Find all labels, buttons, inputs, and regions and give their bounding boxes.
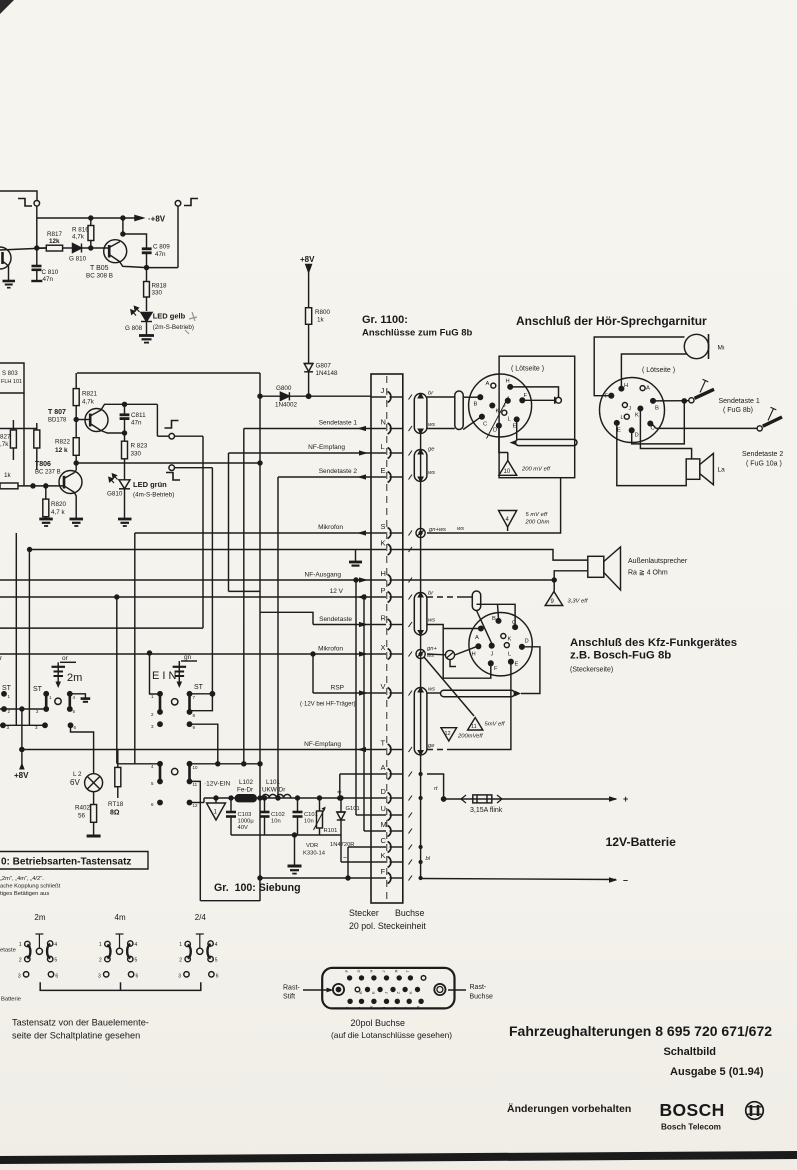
svg-text:1: 1 — [99, 942, 102, 948]
svg-text:( FuG 10a ): ( FuG 10a ) — [746, 461, 782, 468]
connector1 pin J center — [506, 398, 511, 403]
svg-text:H: H — [624, 383, 628, 389]
wire row X — [0, 653, 371, 655]
resistor R823 — [124, 433, 126, 441]
svg-text:6: 6 — [136, 973, 139, 979]
svg-text:D: D — [493, 428, 497, 434]
diode G807 — [304, 364, 313, 372]
scan corner mark top-left — [0, 0, 14, 14]
ground stub row K — [355, 550, 357, 563]
svg-text:C: C — [483, 422, 487, 428]
wire S row to box1 — [427, 478, 561, 533]
battery minus wire — [421, 879, 616, 880]
wire T805 collector — [123, 218, 147, 248]
svg-text:(4m-S-Betrieb): (4m-S-Betrieb) — [133, 492, 174, 499]
svg-text:Sendetaste 1: Sendetaste 1 — [319, 420, 358, 427]
wire row S — [135, 532, 371, 534]
wire pin S through strip — [371, 532, 386, 534]
svg-text:F: F — [524, 393, 528, 399]
connector2 pin F — [609, 393, 614, 398]
terminal circle H1 — [556, 397, 562, 403]
wire C2 to Sendetaste2 — [653, 425, 657, 429]
arrow right — [357, 594, 366, 599]
shield tip — [417, 750, 424, 756]
tick — [409, 813, 413, 818]
wire pin R through strip — [371, 624, 386, 626]
svg-text:F: F — [381, 867, 386, 876]
svg-text:ws: ws — [428, 470, 435, 476]
tick — [409, 578, 413, 583]
svg-text:10n: 10n — [304, 819, 314, 825]
svg-text:2: 2 — [99, 958, 102, 964]
box around connector 1 — [499, 356, 575, 478]
svg-text:3,15A flink: 3,15A flink — [470, 807, 503, 814]
svg-text:E: E — [381, 466, 386, 475]
pin S arc — [388, 528, 391, 539]
clamp drain stub — [450, 660, 456, 667]
vertical x116.8 row P down — [116, 597, 118, 764]
resistor R820 — [45, 486, 47, 499]
svg-text:J: J — [629, 406, 632, 412]
wire pin M through strip — [371, 830, 386, 832]
tick — [409, 595, 413, 600]
ground under LED gruen — [118, 518, 132, 521]
svg-text:12 k: 12 k — [55, 447, 68, 454]
wire pin N through strip — [371, 428, 386, 430]
svg-text:2: 2 — [19, 958, 22, 964]
wire F1 to terminal — [525, 399, 555, 401]
switch EIN contacts lower — [158, 762, 162, 766]
svg-text:(2m-S-Betrieb): (2m-S-Betrieb) — [153, 324, 194, 331]
connector1 pin E — [514, 417, 519, 422]
test triangle 4 — [499, 511, 517, 528]
switch lever Sendetaste1 — [695, 389, 715, 398]
label Rast-Buchse — [448, 989, 466, 991]
svg-text:ws: ws — [428, 422, 435, 428]
svg-text:S: S — [381, 522, 386, 531]
svg-text:4m: 4m — [115, 913, 126, 922]
svg-text:( Lötseite ): ( Lötseite ) — [511, 366, 544, 373]
lamp L2 — [85, 774, 103, 792]
svg-text:B: B — [655, 406, 659, 412]
svg-text:K: K — [496, 409, 500, 415]
tick — [409, 395, 413, 400]
wire pin T through strip — [371, 749, 386, 751]
svg-text:Mikrofon: Mikrofon — [318, 524, 343, 531]
connector strip dashed centerline — [386, 376, 388, 900]
connector1 pin H — [508, 385, 513, 390]
wire pin F through strip — [371, 877, 386, 879]
svg-text:C: C — [381, 836, 387, 845]
wire row P — [0, 596, 371, 598]
connector3 pin L — [504, 643, 509, 648]
wire row V — [313, 692, 371, 694]
svg-text:827: 827 — [0, 434, 11, 441]
svg-text:T B05: T B05 — [90, 265, 109, 272]
wire pin C through strip — [371, 846, 386, 848]
vertical drop row N — [243, 429, 245, 764]
svg-text:Rast-: Rast- — [283, 985, 300, 992]
svg-text:12: 12 — [193, 803, 199, 808]
svg-text:L: L — [381, 442, 385, 451]
connector circle 2 — [600, 378, 665, 443]
svg-text:Sendetaste: Sendetaste — [319, 616, 352, 623]
connector1 pin B — [478, 395, 483, 400]
svg-text:M: M — [416, 1006, 421, 1009]
svg-text:ws: ws — [457, 526, 464, 532]
svg-text:L: L — [621, 415, 624, 421]
resistor R402 — [93, 792, 95, 805]
T807 circuit top rail — [77, 372, 260, 374]
svg-text:ache Kopplung schließt: ache Kopplung schließt — [0, 884, 61, 890]
arrow right — [359, 622, 368, 627]
svg-text:LED grün: LED grün — [133, 480, 167, 489]
arrow left — [357, 530, 366, 535]
Rast-Buchse hole — [434, 984, 445, 995]
svg-text:L102: L102 — [239, 779, 254, 786]
svg-text:5: 5 — [135, 958, 138, 964]
svg-text:D: D — [635, 433, 639, 439]
wire EIN pin11 drop — [190, 781, 201, 900]
svg-text:Stecker: Stecker — [349, 908, 379, 918]
ground left edge — [3, 280, 16, 283]
svg-text:Rа ≧ 4 Ohm: Rа ≧ 4 Ohm — [628, 570, 668, 577]
wire row M — [364, 830, 371, 832]
pin T arc — [388, 744, 391, 755]
svg-text:4,7 k: 4,7 k — [51, 509, 66, 516]
svg-text:12 V: 12 V — [330, 588, 344, 595]
svg-text:D: D — [356, 970, 361, 973]
svg-text:ST: ST — [194, 684, 204, 691]
svg-text:Änderungen vorbehalten: Änderungen vorbehalten — [507, 1102, 631, 1115]
fuse 3,15A — [473, 795, 492, 803]
connector2 pin L — [624, 414, 629, 419]
cable shield oval — [414, 394, 427, 434]
test triangle 11 — [468, 718, 483, 731]
wire row W — [341, 861, 371, 863]
wire row U — [356, 814, 371, 816]
Aussenlautsprecher speaker — [588, 556, 604, 577]
svg-text:5mV eff: 5mV eff — [485, 722, 506, 728]
wire B2 to Sendetaste1 — [655, 400, 689, 402]
svg-text:E I N: E I N — [152, 670, 177, 682]
varistor R101 VDR — [319, 798, 321, 811]
svg-text:R818: R818 — [152, 283, 168, 290]
svg-text:K: K — [408, 991, 413, 994]
wire x21.9 to +8V — [21, 709, 23, 765]
wire K2 to speaker La — [640, 411, 691, 459]
ground siebung — [294, 835, 296, 866]
pin R arc — [388, 619, 391, 630]
cable shield oval — [414, 593, 427, 636]
svg-text:R820: R820 — [51, 501, 67, 508]
arrow left — [357, 474, 366, 479]
svg-text:2: 2 — [179, 958, 182, 964]
transistor T805 — [104, 240, 127, 263]
wire H2 to mic bottom — [621, 354, 687, 386]
connector1 pin F — [520, 398, 525, 403]
svg-text:4,7k: 4,7k — [72, 234, 85, 241]
svg-text:40V: 40V — [238, 825, 248, 831]
svg-text:4: 4 — [215, 942, 218, 948]
svg-text:A: A — [486, 381, 490, 387]
tick — [409, 426, 413, 431]
arrow right — [357, 747, 366, 752]
connector3 pin E — [509, 659, 514, 664]
connector3 pin K — [501, 634, 506, 639]
connector1 pin K — [490, 403, 495, 408]
wire base row — [0, 248, 46, 250]
svg-text:47n: 47n — [43, 276, 54, 283]
test triangle 10 — [507, 453, 509, 461]
connector1 pin L — [502, 410, 507, 415]
wire terminal2 down to emitter row — [177, 206, 179, 268]
terminal circle 1 — [34, 201, 40, 207]
cable shield oval near connector1 — [455, 391, 463, 430]
svg-text:2/4: 2/4 — [195, 913, 207, 922]
connector3 pin F — [489, 661, 494, 666]
svg-text:RT18: RT18 — [108, 801, 124, 808]
wire pin X through strip — [371, 653, 386, 655]
svg-text:2m: 2m — [67, 672, 82, 684]
jog wire to row P — [229, 590, 261, 592]
ground R402 — [87, 835, 101, 838]
verticals right column — [355, 580, 357, 815]
svg-text:K: K — [635, 413, 639, 419]
microphone M1 — [684, 334, 708, 358]
svg-text:gn+ws: gn+ws — [429, 527, 446, 533]
capacitor C101 — [297, 798, 299, 812]
svg-text:Schaltbild: Schaltbild — [663, 1046, 716, 1058]
svg-text:N: N — [381, 418, 386, 427]
pin X arc — [388, 649, 391, 660]
svg-text:3: 3 — [178, 973, 181, 979]
svg-text:FLH 101: FLH 101 — [1, 379, 22, 385]
20pol pins middle row — [365, 987, 370, 992]
svg-text:Anschluß der Hör-Sprechgarnitu: Anschluß der Hör-Sprechgarnitur — [516, 314, 707, 328]
wire bottom jog — [200, 900, 260, 902]
wire E1 into shield — [516, 422, 518, 440]
svg-text:S 803: S 803 — [2, 371, 18, 377]
svg-text:z.B. Bosch-FuG 8b: z.B. Bosch-FuG 8b — [570, 650, 671, 662]
connector2 pin K — [638, 406, 643, 411]
wire T row to E3 — [427, 749, 449, 751]
capacitor C103 — [230, 798, 232, 812]
wire ws to C1 — [427, 428, 455, 430]
resistor R800 — [306, 308, 312, 325]
svg-text:Rast-: Rast- — [470, 984, 487, 991]
svg-text:R101: R101 — [324, 828, 338, 834]
resistor R817 — [46, 245, 62, 251]
svg-text:G101: G101 — [346, 806, 360, 812]
wire pin U through strip — [371, 814, 386, 816]
wire X row to H3 — [427, 653, 445, 656]
terminal Sendetaste2 — [757, 426, 762, 431]
vertical drop row E — [277, 477, 279, 798]
rail y628 — [0, 627, 203, 629]
connector3 pin J — [489, 643, 494, 648]
svg-text:0: Betriebsarten-Tastensatz: 0: Betriebsarten-Tastensatz — [1, 857, 131, 868]
svg-text:Y: Y — [404, 1007, 409, 1010]
svg-text:8Ω: 8Ω — [110, 810, 120, 817]
connector circle 1 — [469, 374, 532, 437]
vertical x212 — [211, 468, 213, 694]
svg-text:E: E — [371, 991, 376, 994]
svg-text:K: K — [381, 539, 386, 548]
connector1 pin A — [491, 383, 496, 388]
svg-text:6: 6 — [55, 973, 58, 979]
svg-text:5: 5 — [215, 958, 218, 964]
svg-text:Anschluß des Kfz-Funkgerätes: Anschluß des Kfz-Funkgerätes — [570, 637, 737, 649]
pin H arc — [388, 575, 391, 586]
connector circle 3 — [469, 613, 532, 676]
svg-text:R817: R817 — [47, 231, 63, 238]
svg-text:Tastensatz von der Bauelemente: Tastensatz von der Bauelemente- — [12, 1018, 149, 1028]
svg-text:J: J — [381, 971, 386, 973]
wire pin K through strip — [371, 549, 386, 551]
wire row E — [278, 476, 371, 478]
node fuse branch — [442, 797, 446, 801]
wire D2 B2 link — [632, 401, 685, 444]
svg-text:1N4002: 1N4002 — [275, 402, 298, 409]
svg-text:etaste: etaste — [0, 948, 16, 954]
connector3 pin D — [520, 645, 525, 650]
test triangle 1 — [207, 803, 226, 820]
svg-text:La: La — [718, 467, 726, 474]
svg-text:Fe-Dr: Fe-Dr — [237, 787, 253, 794]
svg-text:( Lötseite ): ( Lötseite ) — [642, 367, 675, 374]
svg-text:R 816: R 816 — [72, 227, 89, 234]
svg-text:ST: ST — [33, 686, 43, 693]
svg-text:–: – — [623, 875, 628, 885]
svg-text:Bosch Telecom: Bosch Telecom — [661, 1123, 721, 1132]
svg-text:12V-Batterie: 12V-Batterie — [606, 835, 677, 849]
svg-text:5: 5 — [54, 958, 57, 964]
connector2 pin A — [640, 386, 645, 391]
tick — [409, 475, 413, 480]
jog wire to row R — [260, 612, 313, 624]
resistor R818 — [146, 268, 148, 282]
arrow right — [359, 690, 368, 695]
terminal circle 4 with pulse — [169, 465, 175, 471]
+8V rail wire — [37, 217, 143, 219]
svg-text:11: 11 — [471, 724, 477, 730]
tick — [409, 652, 413, 657]
wire terminal1 to +8V rail — [36, 206, 38, 248]
wire row J — [260, 395, 280, 397]
svg-text:200 mV eff: 200 mV eff — [521, 467, 551, 473]
svg-text:H: H — [381, 569, 386, 578]
wire pin K through strip — [371, 861, 386, 863]
wire row K to speaker top — [403, 550, 588, 561]
wire terminal3 — [156, 404, 158, 436]
svg-text:bl: bl — [426, 856, 431, 862]
resistor RT18 — [117, 750, 119, 768]
svg-text:1N4148: 1N4148 — [316, 370, 339, 377]
wire V row shield to D3 — [441, 690, 515, 696]
svg-text:10: 10 — [193, 765, 199, 770]
svg-text:R800: R800 — [315, 309, 331, 316]
arrow into shield left — [510, 440, 517, 445]
switch EIN contacts upper — [158, 692, 162, 696]
Betriebsarten title box — [0, 852, 148, 870]
svg-text:R 823: R 823 — [131, 443, 148, 450]
wire EIN pin1 feed from row X — [150, 653, 159, 694]
svg-text:C: C — [345, 1007, 350, 1010]
wire row T — [22, 749, 371, 751]
svg-text:ge: ge — [428, 447, 435, 453]
cable shield oval — [414, 450, 427, 482]
svg-text:L 2: L 2 — [73, 771, 82, 778]
resistor R821 — [75, 373, 77, 389]
svg-text:200 Ohm: 200 Ohm — [525, 520, 550, 526]
svg-text:S: S — [392, 1007, 397, 1010]
svg-text:E: E — [513, 424, 517, 430]
tick — [409, 451, 413, 456]
svg-text:Mı: Mı — [718, 345, 725, 352]
wire pin A through strip — [371, 773, 386, 775]
svg-text:47n: 47n — [155, 251, 166, 258]
20pol pins top row — [347, 975, 352, 980]
svg-text:20pol Buchse: 20pol Buchse — [351, 1018, 406, 1028]
svg-text:6V: 6V — [70, 778, 80, 787]
svg-text:Sendetaste 1: Sendetaste 1 — [719, 398, 760, 405]
shield tip — [417, 592, 424, 598]
svg-text:J: J — [503, 403, 506, 409]
svg-text:or: or — [62, 655, 69, 662]
pin K arc — [388, 857, 391, 868]
shield clamp X row connector3 — [445, 650, 454, 659]
pin P arc — [388, 592, 391, 603]
svg-text:BOSCH: BOSCH — [660, 1100, 725, 1120]
svg-text:H: H — [506, 379, 510, 385]
pin A arc — [388, 769, 391, 780]
wire row H to speaker bottom — [403, 571, 588, 580]
wire E2 to La bottom — [617, 425, 686, 485]
svg-text:E: E — [617, 428, 621, 434]
svg-text:20 pol. Steckeinheit: 20 pol. Steckeinheit — [349, 921, 426, 931]
wire RT18 top rail — [118, 763, 160, 765]
svg-text:2m: 2m — [34, 913, 45, 922]
svg-text:K: K — [508, 637, 512, 643]
svg-text:Buchse: Buchse — [395, 908, 424, 918]
svg-text:D: D — [525, 639, 529, 645]
capacitor C102 — [264, 798, 266, 812]
svg-text:Sendetaste 2: Sendetaste 2 — [742, 451, 783, 458]
tick — [409, 747, 413, 752]
svg-text:G800: G800 — [276, 385, 292, 392]
wire pin J through strip — [371, 396, 386, 398]
wire pin H through strip — [371, 579, 386, 581]
connector2 pin C — [648, 421, 653, 426]
diode G800 on J row — [280, 392, 289, 400]
svg-text:A: A — [475, 635, 479, 641]
svg-text:A: A — [381, 763, 386, 772]
wire row A — [340, 773, 371, 775]
svg-text:R822: R822 — [55, 439, 71, 446]
pin F arc — [388, 873, 391, 884]
bus wire right of strip — [420, 434, 422, 878]
terminal circle 3 with pulse — [165, 421, 179, 429]
svg-text:(·12V bei HF-Träger): (·12V bei HF-Träger) — [300, 702, 355, 708]
svg-text:„2m“, „4m“, „4/2“.: „2m“, „4m“, „4/2“. — [0, 876, 44, 882]
wire row D siebung rail — [204, 797, 371, 799]
connector3 pin B — [496, 619, 501, 624]
fuse wire to battery plus — [444, 798, 616, 800]
svg-text:·+8V: ·+8V — [148, 215, 166, 224]
svg-text:VDR: VDR — [306, 843, 318, 849]
wire row R — [313, 624, 371, 626]
